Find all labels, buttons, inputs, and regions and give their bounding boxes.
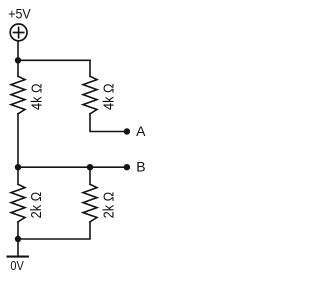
svg-text:2k Ω: 2k Ω: [29, 192, 45, 219]
node B: [124, 164, 130, 170]
svg-text:2k Ω: 2k Ω: [102, 192, 118, 219]
wire middle rail to right 2k: [89, 167, 91, 184]
junction dot middle left: [15, 164, 21, 170]
wire right 2k to bottom rail: [18, 222, 90, 239]
wire top node to left 4k resistor: [17, 60, 19, 76]
svg-text:+5V: +5V: [8, 6, 31, 22]
svg-text:0V: 0V: [10, 258, 24, 273]
svg-text:B: B: [136, 158, 145, 174]
resistor 4kOhm left: [11, 76, 25, 114]
wire bottom node to ground: [17, 239, 19, 256]
wire top rail: [18, 59, 90, 61]
svg-text:4k Ω: 4k Ω: [102, 83, 118, 110]
wire left 2k to bottom node: [17, 222, 19, 239]
wire middle rail to left 2k: [17, 167, 19, 184]
wire left 4k down to middle rail: [17, 114, 19, 167]
resistor 4kOhm right: [83, 76, 97, 114]
svg-text:A: A: [136, 123, 146, 139]
junction dot middle right: [87, 164, 93, 170]
wire right 4k to node A corner: [90, 114, 127, 132]
resistor 2kOhm right: [83, 184, 97, 222]
voltage source +5V terminal: [10, 24, 27, 41]
ground 0V bar: [8, 256, 28, 258]
junction dot bottom node: [15, 236, 21, 242]
junction dot top node: [15, 57, 21, 63]
wire middle rail to node B: [18, 166, 127, 168]
wire right branch drop: [89, 60, 91, 76]
wire source to top node: [17, 41, 19, 61]
svg-text:4k Ω: 4k Ω: [29, 83, 45, 110]
resistor 2kOhm left: [11, 184, 25, 222]
node A: [124, 128, 130, 134]
